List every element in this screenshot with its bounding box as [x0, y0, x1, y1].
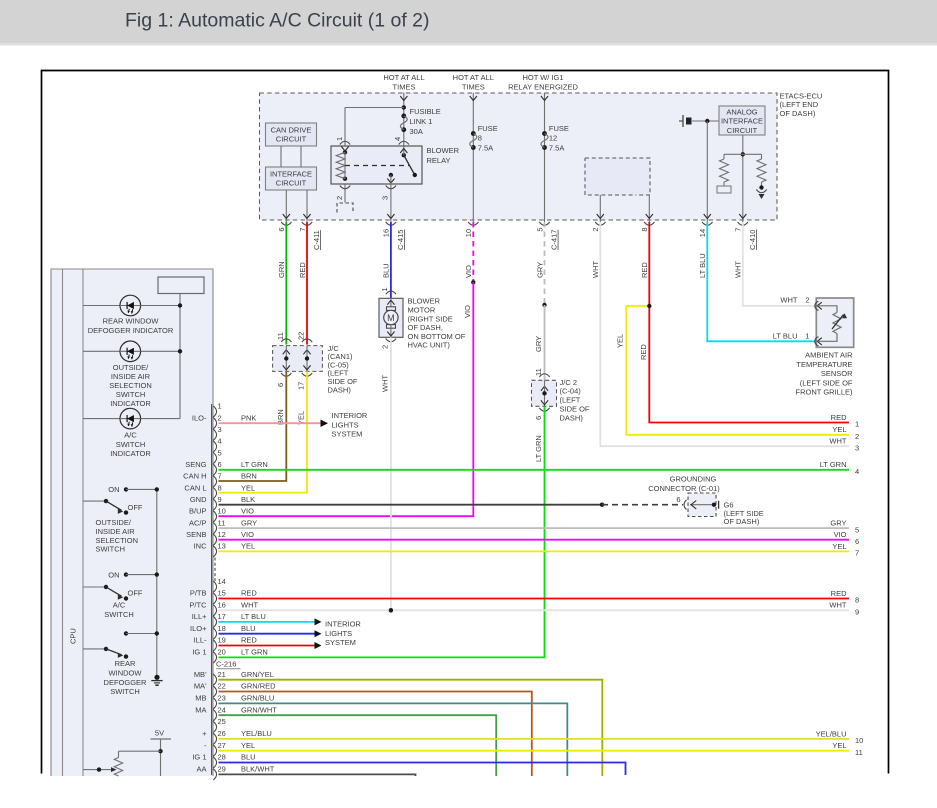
svg-text:P/TB: P/TB: [190, 589, 207, 598]
panel pin 4: [213, 441, 216, 452]
ETACS pin 10 (VIO) connector: [468, 222, 478, 225]
svg-text:A/C: A/C: [113, 601, 126, 610]
node: analog interface input junction: [705, 119, 709, 123]
svg-text:Fig 1: Automatic A/C Circuit (: Fig 1: Automatic A/C Circuit (1 of 2): [125, 10, 430, 32]
svg-text:LT GRN: LT GRN: [820, 460, 847, 469]
wire BLU row 18 to interior lights: [219, 633, 315, 635]
wire VIO dashed segment: [472, 222, 474, 282]
svg-text:25: 25: [218, 717, 226, 726]
ETACS pin 6 (GRN) connector: [281, 222, 291, 225]
svg-text:21: 21: [218, 670, 226, 679]
svg-text:AC/P: AC/P: [189, 518, 207, 527]
wire WHT row 16 full width: [219, 609, 850, 611]
panel pin 19 ILL-: [213, 640, 216, 651]
svg-text:SYSTEM: SYSTEM: [332, 430, 363, 439]
svg-text:18: 18: [218, 624, 226, 633]
svg-text:6: 6: [276, 383, 285, 387]
svg-text:C-417: C-417: [550, 230, 559, 250]
ground (panel bus): [154, 675, 159, 680]
svg-text:LT GRN: LT GRN: [241, 460, 268, 469]
svg-text:SWITCH: SWITCH: [110, 687, 140, 696]
svg-text:OF DASH): OF DASH): [780, 109, 816, 118]
svg-text:BLU: BLU: [241, 624, 256, 633]
svg-text:7: 7: [734, 227, 743, 231]
svg-text:28: 28: [218, 753, 226, 762]
svg-text:RED: RED: [640, 262, 649, 278]
fusible link 1 30A: [402, 105, 406, 109]
svg-text:HVAC UNIT): HVAC UNIT): [408, 341, 451, 350]
wires CAN DRIVE to INTERFACE: [280, 146, 282, 167]
svg-text:AA: AA: [196, 765, 206, 774]
svg-text:11: 11: [534, 368, 543, 376]
svg-text:CIRCUIT: CIRCUIT: [276, 135, 307, 144]
svg-text:RED: RED: [831, 589, 847, 598]
svg-text:13: 13: [218, 542, 226, 551]
ETACS pin 8 (RED) connector: [644, 222, 654, 225]
svg-text:22: 22: [218, 682, 226, 691]
resistor right: [761, 154, 763, 159]
svg-text:LT GRN: LT GRN: [241, 648, 268, 657]
svg-text:(LEFT END: (LEFT END: [780, 100, 819, 109]
svg-text:BLOWER: BLOWER: [427, 146, 460, 155]
svg-text:BLK/WHT: BLK/WHT: [241, 765, 275, 774]
relay pin 2: [344, 184, 346, 203]
CAN DRIVE CIRCUIT box: [266, 123, 317, 146]
svg-text:RED: RED: [831, 413, 847, 422]
ETACS pin 14 (LT BLU) connector: [702, 222, 712, 225]
svg-text:GRY: GRY: [534, 336, 543, 352]
wire RED (pin 7 to J/C CAN1 pin 22): [306, 222, 308, 345]
svg-text:RED: RED: [241, 636, 257, 645]
svg-text:1: 1: [335, 137, 344, 141]
svg-text:11: 11: [218, 518, 226, 527]
wire RED row 19 to interior lights: [219, 645, 315, 647]
relay switch: [402, 153, 406, 157]
wire dashed box to pin 2: [599, 195, 601, 222]
INTERFACE CIRCUIT box: [266, 167, 317, 190]
wire INTERFACE out pin 7: [306, 190, 308, 222]
svg-text:BRN: BRN: [241, 472, 257, 481]
sensor input terminal: [692, 120, 719, 122]
svg-text:REAR WINDOW: REAR WINDOW: [103, 317, 160, 326]
svg-text:2: 2: [335, 196, 344, 200]
wire dashed box to pin 8: [648, 195, 650, 222]
svg-text:5V: 5V: [155, 728, 164, 737]
svg-text:YEL: YEL: [832, 542, 846, 551]
svg-text:MA: MA: [195, 705, 206, 714]
svg-text:7: 7: [855, 549, 859, 558]
svg-text:ILO-: ILO-: [192, 413, 207, 422]
svg-text:OFF: OFF: [128, 503, 143, 512]
wire LT GRN row 6 full width: [219, 469, 850, 471]
svg-text:PNK: PNK: [241, 413, 256, 422]
svg-text:LIGHTS: LIGHTS: [325, 629, 352, 638]
ETACS pin 2 (WHT) connector: [595, 222, 605, 225]
ETACS-ECU module box: [260, 93, 778, 220]
svg-text:11: 11: [276, 332, 285, 340]
svg-text:GRN/WHT: GRN/WHT: [241, 705, 277, 714]
svg-text:FUSE: FUSE: [549, 124, 569, 133]
svg-text:VIO: VIO: [241, 530, 254, 539]
wire GRN/WHT row 24: [219, 715, 497, 776]
svg-text:10: 10: [464, 229, 473, 237]
svg-text:16: 16: [382, 229, 391, 237]
svg-text:OF DASH,: OF DASH,: [408, 323, 443, 332]
svg-text:5: 5: [535, 227, 544, 231]
J/C (CAN1) (C-05) junction connector: [281, 339, 291, 342]
switch bus: [156, 489, 158, 677]
svg-text:8: 8: [640, 227, 649, 231]
potentiometer (temperature sensor input): [119, 750, 161, 752]
resistor left: [723, 154, 725, 159]
svg-text:M: M: [387, 313, 395, 323]
svg-text:YEL: YEL: [616, 334, 625, 348]
svg-text:19: 19: [218, 636, 226, 645]
panel pin 8 CAN L: [213, 488, 216, 499]
svg-text:GRY: GRY: [535, 262, 544, 278]
svg-text:27: 27: [218, 741, 226, 750]
fuse 12 7.5A: [542, 131, 547, 136]
wire BLK/WHT row 29: [219, 774, 416, 776]
svg-text:FUSE: FUSE: [478, 124, 498, 133]
diagram frame: [42, 71, 889, 774]
CPU strip: [62, 269, 64, 776]
svg-text:FRONT GRILLE): FRONT GRILLE): [796, 388, 853, 397]
svg-text:TIMES: TIMES: [462, 82, 485, 91]
panel pin 23 MB: [213, 698, 216, 709]
wire WHT motor to row 16: [390, 337, 392, 610]
wire GRN/RED row 22: [219, 692, 532, 777]
svg-text:9: 9: [218, 495, 222, 504]
svg-text:26: 26: [218, 729, 226, 738]
connector body line: [211, 404, 213, 775]
panel pin 17 ILL+: [213, 616, 216, 627]
svg-text:MA': MA': [194, 682, 207, 691]
panel pin 28 IG 1: [213, 757, 216, 768]
svg-text:15: 15: [218, 589, 226, 598]
wire GRY row 11 full width: [219, 527, 850, 529]
svg-text:INTERFACE: INTERFACE: [721, 117, 763, 126]
svg-text:ON: ON: [108, 485, 119, 494]
svg-text:IG 1: IG 1: [192, 648, 206, 657]
panel pin 18 ILO+: [213, 628, 216, 639]
svg-text:14: 14: [698, 229, 707, 237]
svg-text:INTERIOR: INTERIOR: [325, 620, 361, 629]
wire RED (pin 8 down and right to edge pin 1): [649, 222, 849, 423]
svg-text:VIO: VIO: [464, 265, 473, 278]
svg-text:WHT: WHT: [734, 261, 743, 278]
wire junction to pin 14: [706, 121, 708, 222]
svg-text:SWITCH: SWITCH: [96, 545, 126, 554]
relay coil: [343, 150, 347, 154]
svg-text:GRN/BLU: GRN/BLU: [241, 694, 274, 703]
svg-text:12: 12: [218, 530, 226, 539]
panel pin 25: [213, 721, 216, 732]
connector gap dashes: [214, 558, 216, 582]
title bar: [0, 0, 937, 43]
svg-text:DEFOGGER INDICATOR: DEFOGGER INDICATOR: [88, 326, 174, 335]
svg-text:CAN DRIVE: CAN DRIVE: [271, 125, 312, 134]
svg-text:VIO: VIO: [241, 507, 254, 516]
panel pin 2 ILO-: [213, 418, 216, 429]
svg-text:WHT: WHT: [829, 601, 846, 610]
svg-text:9: 9: [855, 608, 859, 617]
svg-text:BLK: BLK: [241, 495, 255, 504]
wire YEL row 27 full width: [219, 750, 850, 752]
svg-text:RED: RED: [241, 589, 257, 598]
svg-text:C-410: C-410: [748, 230, 757, 250]
svg-text:1: 1: [380, 287, 389, 291]
svg-text:LIGHTS: LIGHTS: [332, 420, 359, 429]
svg-text:BLU: BLU: [382, 263, 391, 278]
svg-text:8: 8: [218, 483, 222, 492]
svg-text:GRY: GRY: [830, 519, 846, 528]
svg-text:ON: ON: [108, 570, 119, 579]
svg-text:YEL/BLU: YEL/BLU: [241, 729, 272, 738]
svg-text:2: 2: [855, 432, 859, 441]
svg-text:6: 6: [277, 227, 286, 231]
wire LT BLU row 17 to interior lights: [219, 621, 315, 623]
wire fusible link to relay pin 1 branch: [345, 107, 404, 109]
relay: blower relay box: [331, 146, 422, 184]
wire WHT (C-410 pin 7 to ambient sensor pin 2): [743, 222, 817, 306]
wire GRY solid to J/C 2: [544, 305, 546, 380]
relay pin 2 internal connector stub: [337, 203, 353, 213]
svg-text:GRY: GRY: [241, 518, 257, 527]
ambient air temperature sensor box: [816, 298, 853, 347]
ANALOG INTERFACE CIRCUIT box: [719, 106, 765, 135]
svg-text:ANALOG: ANALOG: [726, 107, 757, 116]
panel pin 29 AA: [213, 769, 216, 780]
svg-text:7.5A: 7.5A: [549, 143, 564, 152]
svg-text:INSIDE AIR: INSIDE AIR: [111, 372, 151, 381]
blower motor box: [386, 291, 396, 294]
svg-text:SELECTION: SELECTION: [109, 381, 152, 390]
node WHT junction row16/motor: [389, 608, 393, 612]
svg-text:OF DASH): OF DASH): [724, 517, 760, 526]
relay pin 1: [341, 147, 348, 152]
svg-text:J/C 2: J/C 2: [560, 378, 578, 387]
svg-text:CIRCUIT: CIRCUIT: [727, 126, 758, 135]
panel pin 22 MA': [213, 686, 216, 697]
svg-text:YEL: YEL: [832, 741, 846, 750]
relay internal dashed link: [345, 165, 409, 167]
panel pin 26 +: [213, 733, 216, 744]
svg-text:20: 20: [218, 648, 226, 657]
svg-text:WHT: WHT: [381, 375, 390, 392]
svg-text:OUTSIDE/: OUTSIDE/: [113, 363, 149, 372]
wire analog box down: [742, 135, 744, 222]
panel pin 10 B/UP: [213, 511, 216, 522]
svg-text:22: 22: [297, 332, 306, 340]
wire VIO row 12 full width: [219, 539, 850, 541]
svg-text:6: 6: [218, 460, 222, 469]
svg-text:LINK 1: LINK 1: [410, 117, 433, 126]
panel pin 12 SENB: [213, 534, 216, 545]
svg-text:HOT AT ALL: HOT AT ALL: [383, 73, 424, 82]
svg-text:10: 10: [855, 736, 863, 745]
svg-text:23: 23: [218, 694, 226, 703]
svg-text:17: 17: [297, 382, 306, 390]
svg-text:ILO+: ILO+: [190, 624, 207, 633]
svg-text:A/C: A/C: [124, 431, 137, 440]
wire GRN/BLU row 23: [219, 703, 568, 776]
svg-text:RELAY: RELAY: [427, 156, 451, 165]
svg-text:2: 2: [591, 227, 600, 231]
panel pin 15 P/TB: [213, 593, 216, 604]
svg-text:2: 2: [218, 413, 222, 422]
svg-text:RED: RED: [298, 262, 307, 278]
svg-text:INTERFACE: INTERFACE: [270, 169, 312, 178]
svg-text:4: 4: [393, 137, 402, 141]
svg-text:CAN L: CAN L: [184, 483, 206, 492]
panel pin 5: [213, 453, 216, 464]
wire INTERFACE out pin 6: [285, 190, 287, 222]
svg-text:REAR: REAR: [115, 659, 136, 668]
panel pin 7 CAN H: [213, 476, 216, 487]
svg-text:SELECTION: SELECTION: [96, 536, 139, 545]
svg-text:24: 24: [218, 705, 226, 714]
svg-text:4: 4: [855, 467, 859, 476]
wire VIO solid down to row 10: [219, 282, 474, 516]
wire feed to fuse 12: [544, 93, 546, 223]
wire internal box bus: [179, 294, 181, 419]
svg-text:LT BLU: LT BLU: [241, 612, 266, 621]
ETACS pin 7 (RED) connector: [302, 222, 312, 225]
svg-text:5: 5: [218, 448, 222, 457]
LED rear window defogger indicator: [83, 305, 120, 307]
svg-text:INSIDE AIR: INSIDE AIR: [96, 527, 136, 536]
panel pin 14: [213, 581, 216, 592]
svg-text:ILL+: ILL+: [192, 612, 207, 621]
svg-text:+: +: [202, 729, 207, 738]
svg-text:CIRCUIT: CIRCUIT: [276, 179, 307, 188]
internal circuit dashed box: [585, 158, 650, 195]
svg-text:5: 5: [855, 525, 859, 534]
panel pin 6 SENG: [213, 464, 216, 475]
svg-text:C-415: C-415: [396, 230, 405, 250]
svg-text:INC: INC: [194, 542, 208, 551]
pull resistors branch: [724, 153, 762, 155]
svg-text:LT BLU: LT BLU: [773, 331, 798, 340]
svg-text:12: 12: [549, 134, 557, 143]
svg-text:P/TC: P/TC: [189, 601, 207, 610]
svg-text:YEL: YEL: [241, 542, 255, 551]
svg-text:CONNECTOR (C-01): CONNECTOR (C-01): [648, 484, 720, 493]
ETACS pin 5 (GRY) connector: [539, 222, 549, 225]
svg-text:YEL: YEL: [832, 425, 846, 434]
svg-text:7.5A: 7.5A: [478, 143, 493, 152]
ground (internal): [759, 185, 763, 189]
internal box: [158, 277, 204, 294]
svg-text:C-216: C-216: [216, 660, 236, 669]
svg-text:16: 16: [218, 601, 226, 610]
svg-text:SWITCH: SWITCH: [116, 390, 146, 399]
svg-text:(C-04): (C-04): [560, 387, 582, 396]
panel pin 3: [213, 429, 216, 440]
panel pin 21 MB': [213, 674, 216, 685]
panel pin 13 INC: [213, 546, 216, 557]
wire YEL (J/C CAN1 to CAN L row 8): [219, 371, 308, 492]
svg-text:HOT AT ALL: HOT AT ALL: [453, 73, 494, 82]
svg-text:FUSIBLE: FUSIBLE: [410, 107, 441, 116]
relay pin 3: [390, 184, 392, 222]
svg-text:6: 6: [855, 537, 859, 546]
svg-text:C-411: C-411: [312, 230, 321, 250]
svg-text:WHT: WHT: [241, 601, 258, 610]
svg-text:6: 6: [676, 495, 680, 504]
svg-text:1: 1: [855, 420, 859, 429]
svg-text:YEL: YEL: [241, 483, 255, 492]
svg-text:ILL-: ILL-: [194, 636, 207, 645]
svg-text:VIO: VIO: [834, 530, 847, 539]
thermistor: [817, 306, 837, 313]
svg-text:WHT: WHT: [829, 437, 846, 446]
svg-text:SENB: SENB: [186, 530, 206, 539]
wire YEL row 13 full width: [219, 550, 850, 552]
svg-text:WHT: WHT: [591, 261, 600, 278]
svg-text:TIMES: TIMES: [393, 82, 416, 91]
svg-text:DEFOGGER: DEFOGGER: [104, 678, 148, 687]
J/C 2 (C-04) junction connector: [539, 374, 549, 377]
svg-text:OUTSIDE/: OUTSIDE/: [96, 518, 132, 527]
node GRY splice: [542, 303, 546, 307]
svg-text:B/UP: B/UP: [189, 507, 207, 516]
svg-text:11: 11: [855, 748, 863, 757]
svg-text:SYSTEM: SYSTEM: [325, 638, 356, 647]
svg-text:17: 17: [218, 612, 226, 621]
svg-text:7: 7: [218, 472, 222, 481]
svg-text:SWITCH: SWITCH: [104, 610, 134, 619]
wire RED row 15 full width: [219, 598, 850, 600]
svg-text:IG 1: IG 1: [192, 753, 206, 762]
svg-text:DASH): DASH): [560, 413, 584, 422]
svg-text:3: 3: [218, 425, 222, 434]
svg-text:29: 29: [218, 765, 226, 774]
panel pin 1: [213, 406, 216, 417]
svg-text:VIO: VIO: [463, 305, 472, 318]
svg-text:INDICATOR: INDICATOR: [110, 399, 151, 408]
wire WHT (pin 2 down and right to edge pin 3): [600, 222, 849, 446]
node VIO splice: [471, 280, 475, 284]
svg-text:RED: RED: [639, 344, 648, 360]
svg-text:INDICATOR: INDICATOR: [110, 449, 151, 458]
svg-text:INTERIOR: INTERIOR: [332, 411, 368, 420]
svg-text:AMBIENT AIR: AMBIENT AIR: [805, 351, 853, 360]
node WHT junction on row 16: [389, 608, 393, 612]
wire feed to fuse 8: [472, 93, 474, 223]
wire LT GRN (J/C 2 to row 20): [219, 406, 545, 657]
panel pin 9 GND: [213, 499, 216, 510]
svg-text:GRN/YEL: GRN/YEL: [241, 670, 274, 679]
svg-text:SENG: SENG: [185, 460, 206, 469]
svg-text:2: 2: [805, 296, 809, 305]
wire LT BLU (pin 14 to ambient sensor pin 1): [707, 222, 817, 341]
svg-text:YEL: YEL: [241, 741, 255, 750]
svg-text:WHT: WHT: [780, 296, 797, 305]
ETACS pin 16 (BLU) connector: [386, 222, 396, 225]
panel pin 16 P/TC: [213, 605, 216, 616]
wire GRY dashed segment: [544, 222, 546, 305]
svg-text:GRN/RED: GRN/RED: [241, 682, 276, 691]
svg-text:YEL/BLU: YEL/BLU: [816, 729, 847, 738]
svg-text:(LEFT SIDE OF: (LEFT SIDE OF: [800, 378, 853, 387]
svg-text:3: 3: [381, 196, 390, 200]
wire YEL/BLU row 26 full width: [219, 738, 850, 740]
svg-text:ETACS-ECU: ETACS-ECU: [780, 92, 823, 101]
svg-text:BLOWER: BLOWER: [408, 297, 441, 306]
svg-text:(RIGHT SIDE: (RIGHT SIDE: [408, 314, 453, 323]
